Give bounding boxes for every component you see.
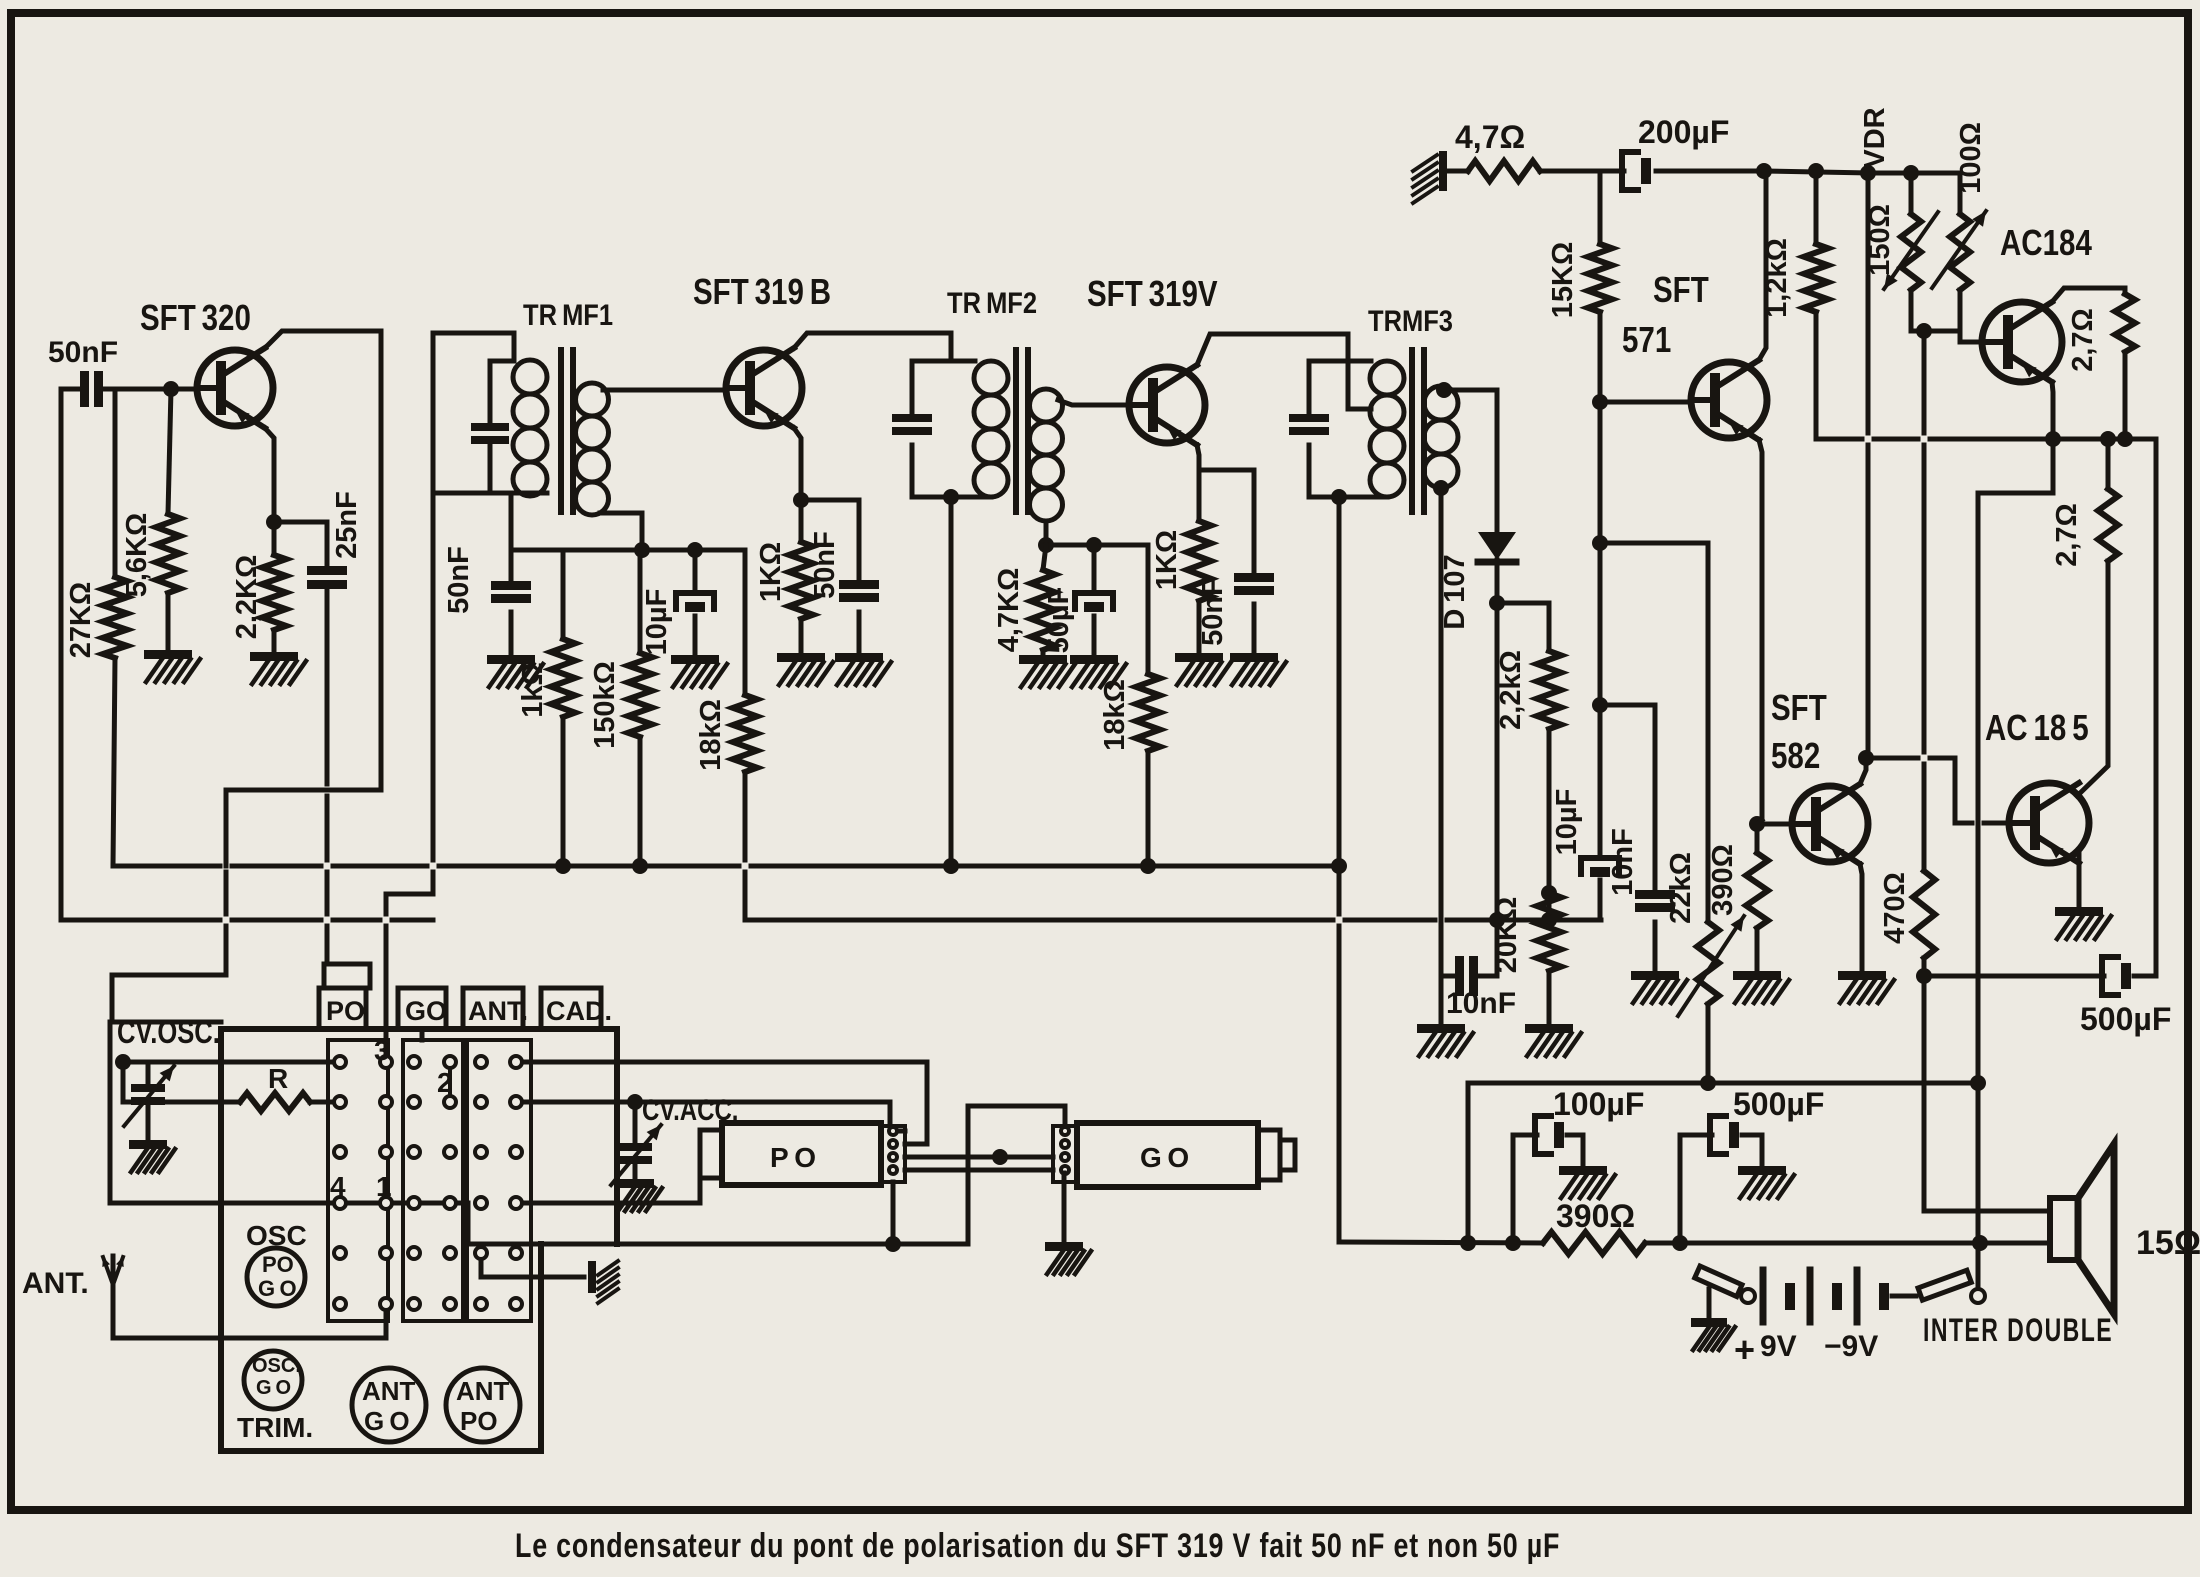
coil PO ferrite bbox=[700, 1130, 722, 1178]
wire TRMF3 sec top to diode bbox=[1436, 382, 1452, 398]
caption text bbox=[515, 1527, 1560, 1565]
svg-text:SFT 319 B: SFT 319 B bbox=[693, 271, 831, 311]
svg-text:9V: 9V bbox=[1760, 1330, 1797, 1363]
wire switch to ground right bbox=[481, 1253, 584, 1277]
bus B AGC line left segment bbox=[61, 918, 220, 923]
inner matrix box ANT column bbox=[467, 1040, 531, 1321]
ground 1k V bbox=[1175, 653, 1223, 662]
speaker bus left segment bbox=[468, 1242, 968, 1247]
wire D107 down to 10nF bbox=[1495, 603, 1500, 976]
box band switch bbox=[221, 1026, 617, 1032]
wire stub col ANT bbox=[448, 1068, 452, 1096]
svg-text:571: 571 bbox=[1622, 319, 1671, 359]
coil GO ferrite bbox=[1053, 1126, 1077, 1182]
ground 50uF bbox=[1070, 655, 1118, 664]
svg-text:10µF: 10µF bbox=[1551, 789, 1583, 856]
transistor SFT320 bbox=[140, 297, 251, 337]
ground 2,2k 320 bbox=[250, 652, 298, 661]
wire collector return bus C bbox=[226, 790, 381, 866]
svg-text:GO: GO bbox=[405, 996, 447, 1026]
svg-text:PO: PO bbox=[262, 1252, 294, 1277]
wire inter double up bbox=[1976, 1083, 1981, 1237]
ground 5,6k bbox=[144, 650, 192, 659]
wire GO label stub bbox=[420, 1029, 425, 1040]
svg-text:500µF: 500µF bbox=[1733, 1086, 1824, 1122]
ground SFT582 emitter bbox=[1838, 971, 1886, 980]
wire input left down to AGC bus bbox=[59, 389, 64, 920]
trimmer ANT PO bbox=[446, 1368, 520, 1442]
wire collector SFT319B bbox=[794, 333, 951, 361]
inner matrix box GO column bbox=[403, 1040, 463, 1321]
svg-text:G O: G O bbox=[1140, 1142, 1189, 1173]
switch inter double bbox=[1923, 1312, 2113, 1348]
ground 500uF bbox=[1738, 1166, 1786, 1175]
contact dots matrix bbox=[334, 1056, 346, 1068]
coil TRMF2 secondary bbox=[1030, 389, 1063, 422]
svg-text:150Ω: 150Ω bbox=[1864, 204, 1896, 276]
node SFT571 base bbox=[1592, 394, 1608, 410]
node MF1 bias bbox=[634, 542, 650, 558]
svg-text:ANT.: ANT. bbox=[22, 1267, 89, 1300]
wire collector SFT571 bbox=[1759, 171, 1766, 360]
transistor SFT319V bbox=[1087, 273, 1218, 313]
transformer TR MF2 bbox=[947, 286, 1037, 319]
transformer TR MF1 bbox=[523, 298, 613, 331]
svg-text:ANT: ANT bbox=[456, 1376, 510, 1406]
wire collector SFT319V bbox=[1197, 334, 1371, 409]
wire row4 to coil PO left bbox=[516, 1180, 700, 1203]
coil TRMF2 primary bbox=[974, 361, 1008, 395]
svg-text:OSC.: OSC. bbox=[252, 1355, 301, 1377]
transistor SFT571 bbox=[1653, 269, 1709, 309]
svg-text:Le condensateur du pont de pol: Le condensateur du pont de polarisation … bbox=[515, 1527, 1560, 1565]
ground AC185 bbox=[2055, 907, 2103, 916]
wire row1 right to coil PO bbox=[516, 1062, 927, 1144]
ground 50nF V bbox=[1230, 653, 1278, 662]
wire row4 bbox=[110, 1203, 468, 1243]
svg-text:50µF: 50µF bbox=[1043, 587, 1075, 654]
bracket over PO bbox=[324, 964, 327, 988]
ground 10uF MF1 bbox=[671, 655, 719, 664]
svg-text:1KΩ: 1KΩ bbox=[1151, 530, 1183, 590]
svg-text:CAD.: CAD. bbox=[546, 996, 612, 1026]
svg-text:10nF: 10nF bbox=[1607, 828, 1639, 896]
svg-text:G O: G O bbox=[364, 1406, 410, 1436]
wire output right down bbox=[2154, 439, 2159, 976]
box CV.OSC bbox=[117, 1015, 220, 1050]
svg-text:P O: P O bbox=[770, 1142, 816, 1173]
transistor AC185 bbox=[1985, 707, 2089, 747]
wire emitter SFT319B bbox=[794, 428, 801, 500]
svg-text:5,6KΩ: 5,6KΩ bbox=[121, 513, 153, 598]
svg-text:2,7Ω: 2,7Ω bbox=[2051, 503, 2083, 567]
wire bias row MF2 bbox=[1046, 543, 1148, 548]
svg-text:PO: PO bbox=[460, 1406, 498, 1436]
svg-text:2: 2 bbox=[437, 1067, 453, 1098]
wire 18k B to bus B bbox=[743, 772, 748, 860]
ground 20k bbox=[1525, 1024, 1573, 1033]
svg-text:2,2kΩ: 2,2kΩ bbox=[1495, 650, 1527, 730]
transistor SFT319B bbox=[693, 271, 831, 311]
svg-text:AC184: AC184 bbox=[2000, 222, 2092, 262]
wire pots bottom bbox=[1911, 331, 1982, 342]
node 1k bus A bbox=[555, 858, 571, 874]
svg-text:470Ω: 470Ω bbox=[1879, 872, 1911, 944]
wire emitter AC184 to switch line bbox=[2045, 431, 2061, 447]
svg-text:D 107: D 107 bbox=[1439, 554, 1471, 629]
wire row2 right to coil PO bbox=[516, 1102, 905, 1131]
rail dots bbox=[1756, 163, 1772, 179]
svg-text:150kΩ: 150kΩ bbox=[589, 661, 621, 749]
wire SFT582 collector to AC185 base bbox=[1866, 756, 1918, 761]
node 150k bus A bbox=[632, 858, 648, 874]
svg-text:27KΩ: 27KΩ bbox=[65, 582, 97, 658]
svg-text:1kΩ: 1kΩ bbox=[517, 662, 549, 718]
svg-text:50nF: 50nF bbox=[809, 531, 841, 599]
node emitter 320 bbox=[266, 514, 282, 530]
ground 10nF audio bbox=[1631, 971, 1679, 980]
wire PO to GO links bbox=[905, 1155, 1053, 1160]
svg-text:SFT: SFT bbox=[1771, 687, 1827, 727]
bus B AGC line right segment bbox=[745, 918, 1333, 923]
wire volume output line bbox=[1468, 1081, 1702, 1086]
svg-text:SFT: SFT bbox=[1653, 269, 1709, 309]
capacitor TRMF1 tuning bbox=[490, 359, 514, 364]
wire 2,7 lower to AC185 collector bbox=[2077, 561, 2108, 796]
wire emitter SFT582 bbox=[1860, 864, 1862, 971]
wire 470 node to speaker top bbox=[1924, 976, 2050, 1211]
wire TRMF2 sec bottom bbox=[1044, 521, 1049, 545]
wire emitter SFT320 bbox=[265, 428, 274, 522]
svg-text:20KΩ: 20KΩ bbox=[1491, 897, 1523, 973]
wire 25nF down to switch bbox=[325, 589, 330, 784]
wire base SFT582 bbox=[1757, 822, 1792, 827]
wire link bracket bbox=[968, 1106, 1065, 1244]
capacitor TRMF2 tuning bbox=[910, 361, 915, 414]
wire TRMF1 bottom to node bbox=[509, 493, 514, 550]
node 2,2k/20k bbox=[1541, 885, 1557, 901]
svg-text:1: 1 bbox=[376, 1171, 392, 1202]
wire collector return lower bbox=[224, 872, 229, 914]
svg-text:50nF: 50nF bbox=[443, 546, 475, 614]
wire 27k to bus A corner bbox=[113, 658, 115, 866]
svg-text:25nF: 25nF bbox=[331, 491, 363, 559]
ground 50nF B bbox=[835, 653, 883, 662]
wire row6 to antenna bbox=[113, 1304, 386, 1338]
svg-text:50nF: 50nF bbox=[1197, 578, 1229, 646]
wire bias row MF1 bbox=[511, 548, 745, 553]
coil TRMF3 secondary bbox=[1424, 386, 1458, 420]
svg-text:SFT 320: SFT 320 bbox=[140, 297, 251, 337]
capacitor TRMF3 tuning bbox=[1307, 361, 1312, 414]
svg-text:ANT.: ANT. bbox=[468, 996, 528, 1026]
svg-text:3: 3 bbox=[374, 1035, 390, 1066]
battery left switch bbox=[1741, 1289, 1755, 1303]
bus A decoupling line bbox=[113, 864, 220, 869]
wire battery to inter double bbox=[1892, 1294, 1916, 1299]
svg-text:VDR: VDR bbox=[1859, 107, 1891, 168]
svg-text:582: 582 bbox=[1771, 735, 1820, 775]
ground CV.OSC bbox=[129, 1140, 167, 1149]
svg-text:4: 4 bbox=[330, 1171, 346, 1202]
wire CV.ACC tap bbox=[633, 1102, 638, 1143]
label box GO bbox=[398, 988, 446, 1029]
svg-text:TRIM.: TRIM. bbox=[237, 1412, 313, 1443]
ground switch right bbox=[588, 1261, 596, 1293]
svg-text:AC 18 5: AC 18 5 bbox=[1985, 707, 2089, 747]
svg-text:15Ω: 15Ω bbox=[2136, 1224, 2200, 1262]
trimmer OSC GO TRIM bbox=[244, 1351, 302, 1409]
label box ANT. bbox=[463, 988, 523, 1029]
wire emitter SFT571 bbox=[1759, 440, 1762, 820]
svg-text:R: R bbox=[268, 1063, 288, 1094]
svg-text:15KΩ: 15KΩ bbox=[1547, 242, 1579, 318]
wire emitter AC184 bbox=[2052, 382, 2053, 439]
ground CV.ACC bbox=[616, 1179, 654, 1188]
wire collector AC184 to 2,7 ohm upper bbox=[2052, 288, 2125, 302]
svg-text:18kΩ: 18kΩ bbox=[695, 699, 727, 771]
svg-text:4,7Ω: 4,7Ω bbox=[1455, 119, 1525, 155]
svg-text:PO: PO bbox=[326, 996, 365, 1026]
ground 390 base bbox=[1733, 971, 1781, 980]
wire emitter AC185 bbox=[2077, 853, 2082, 907]
svg-text:22kΩ: 22kΩ bbox=[1665, 852, 1697, 924]
wire base SFT571 bbox=[1600, 400, 1691, 405]
svg-text:ANT: ANT bbox=[362, 1376, 416, 1406]
svg-text:G O: G O bbox=[256, 1377, 291, 1399]
wire TRMF2 to bus A bbox=[949, 497, 954, 866]
svg-text:4,7KΩ: 4,7KΩ bbox=[993, 568, 1025, 653]
variable capacitor CV.ACC bbox=[642, 1092, 738, 1126]
speaker bus right segment bbox=[1339, 1242, 1543, 1243]
label box PO bbox=[319, 988, 366, 1029]
wire TRMF3 to bus A end bbox=[1337, 497, 1342, 866]
wire secondary bottom bbox=[600, 513, 642, 550]
ground battery bbox=[1691, 1318, 1727, 1327]
svg-text:100µF: 100µF bbox=[1553, 1086, 1644, 1122]
node D107 bbox=[1489, 595, 1505, 611]
ground supply bbox=[1439, 151, 1447, 191]
svg-text:2,7Ω: 2,7Ω bbox=[2067, 308, 2099, 372]
wire TRMF1 bottom bbox=[433, 491, 547, 496]
svg-text:18kΩ: 18kΩ bbox=[1099, 679, 1131, 751]
wire TRMF3 sec bottom bbox=[1433, 480, 1449, 496]
transistor AC184 bbox=[2000, 222, 2092, 262]
wire secondary top to base SFT319B bbox=[603, 388, 727, 393]
wire TRMF2 bottom bbox=[912, 495, 991, 500]
wire emitter SFT319V bbox=[1197, 445, 1199, 521]
svg-text:G O: G O bbox=[258, 1276, 297, 1301]
svg-text:50nF: 50nF bbox=[48, 336, 118, 369]
label box CAD. bbox=[541, 988, 601, 1029]
wire TRMF2 sec top to base 319V bbox=[1058, 400, 1129, 405]
wire TRMF3 bottom bbox=[1309, 495, 1387, 500]
node base divider bbox=[163, 381, 179, 397]
svg-text:390Ω: 390Ω bbox=[1707, 844, 1739, 916]
svg-text:−9V: −9V bbox=[1824, 1330, 1878, 1363]
svg-text:200µF: 200µF bbox=[1638, 114, 1729, 150]
svg-text:390Ω: 390Ω bbox=[1556, 1198, 1635, 1234]
ground GO bbox=[1062, 1173, 1067, 1242]
svg-text:500µF: 500µF bbox=[2080, 1001, 2171, 1037]
ground 4,7k bbox=[1019, 655, 1067, 664]
wire SFT571 emitter to SFT582 base bbox=[1757, 820, 1762, 824]
wire po bottom bbox=[891, 1182, 896, 1244]
wire collector SFT582 bbox=[1860, 758, 1866, 784]
coil TRMF3 primary bbox=[1370, 361, 1404, 395]
variable capacitor CV.OSC bbox=[146, 1062, 151, 1084]
svg-text:10µF: 10µF bbox=[641, 589, 673, 656]
output node line bbox=[1816, 437, 1862, 442]
svg-text:TR MF2: TR MF2 bbox=[947, 286, 1037, 319]
ground 1k B bbox=[777, 653, 825, 662]
ground 10nF det bbox=[1439, 976, 1444, 1024]
wire collector SFT320 bbox=[265, 331, 381, 790]
svg-text:TRMF3: TRMF3 bbox=[1368, 304, 1453, 337]
svg-text:+: + bbox=[1734, 1329, 1755, 1370]
svg-text:SFT 319V: SFT 319V bbox=[1087, 273, 1218, 313]
trimmer ANT GO bbox=[352, 1368, 426, 1442]
transistor SFT582 bbox=[1771, 687, 1827, 727]
wire row1 to CV.OSC node bbox=[123, 1060, 340, 1065]
wire TRMF3 down to speaker bus bbox=[1337, 866, 1342, 914]
inner matrix box PO column bbox=[328, 1040, 388, 1321]
transformer TRMF3 bbox=[1368, 304, 1453, 337]
coil TRMF1 secondary bbox=[576, 383, 609, 416]
ground 50nF MF1 bbox=[487, 655, 535, 664]
svg-text:TR MF1: TR MF1 bbox=[523, 298, 613, 331]
ground 100uF bbox=[1559, 1166, 1607, 1175]
svg-text:INTER DOUBLE: INTER DOUBLE bbox=[1923, 1312, 2113, 1348]
